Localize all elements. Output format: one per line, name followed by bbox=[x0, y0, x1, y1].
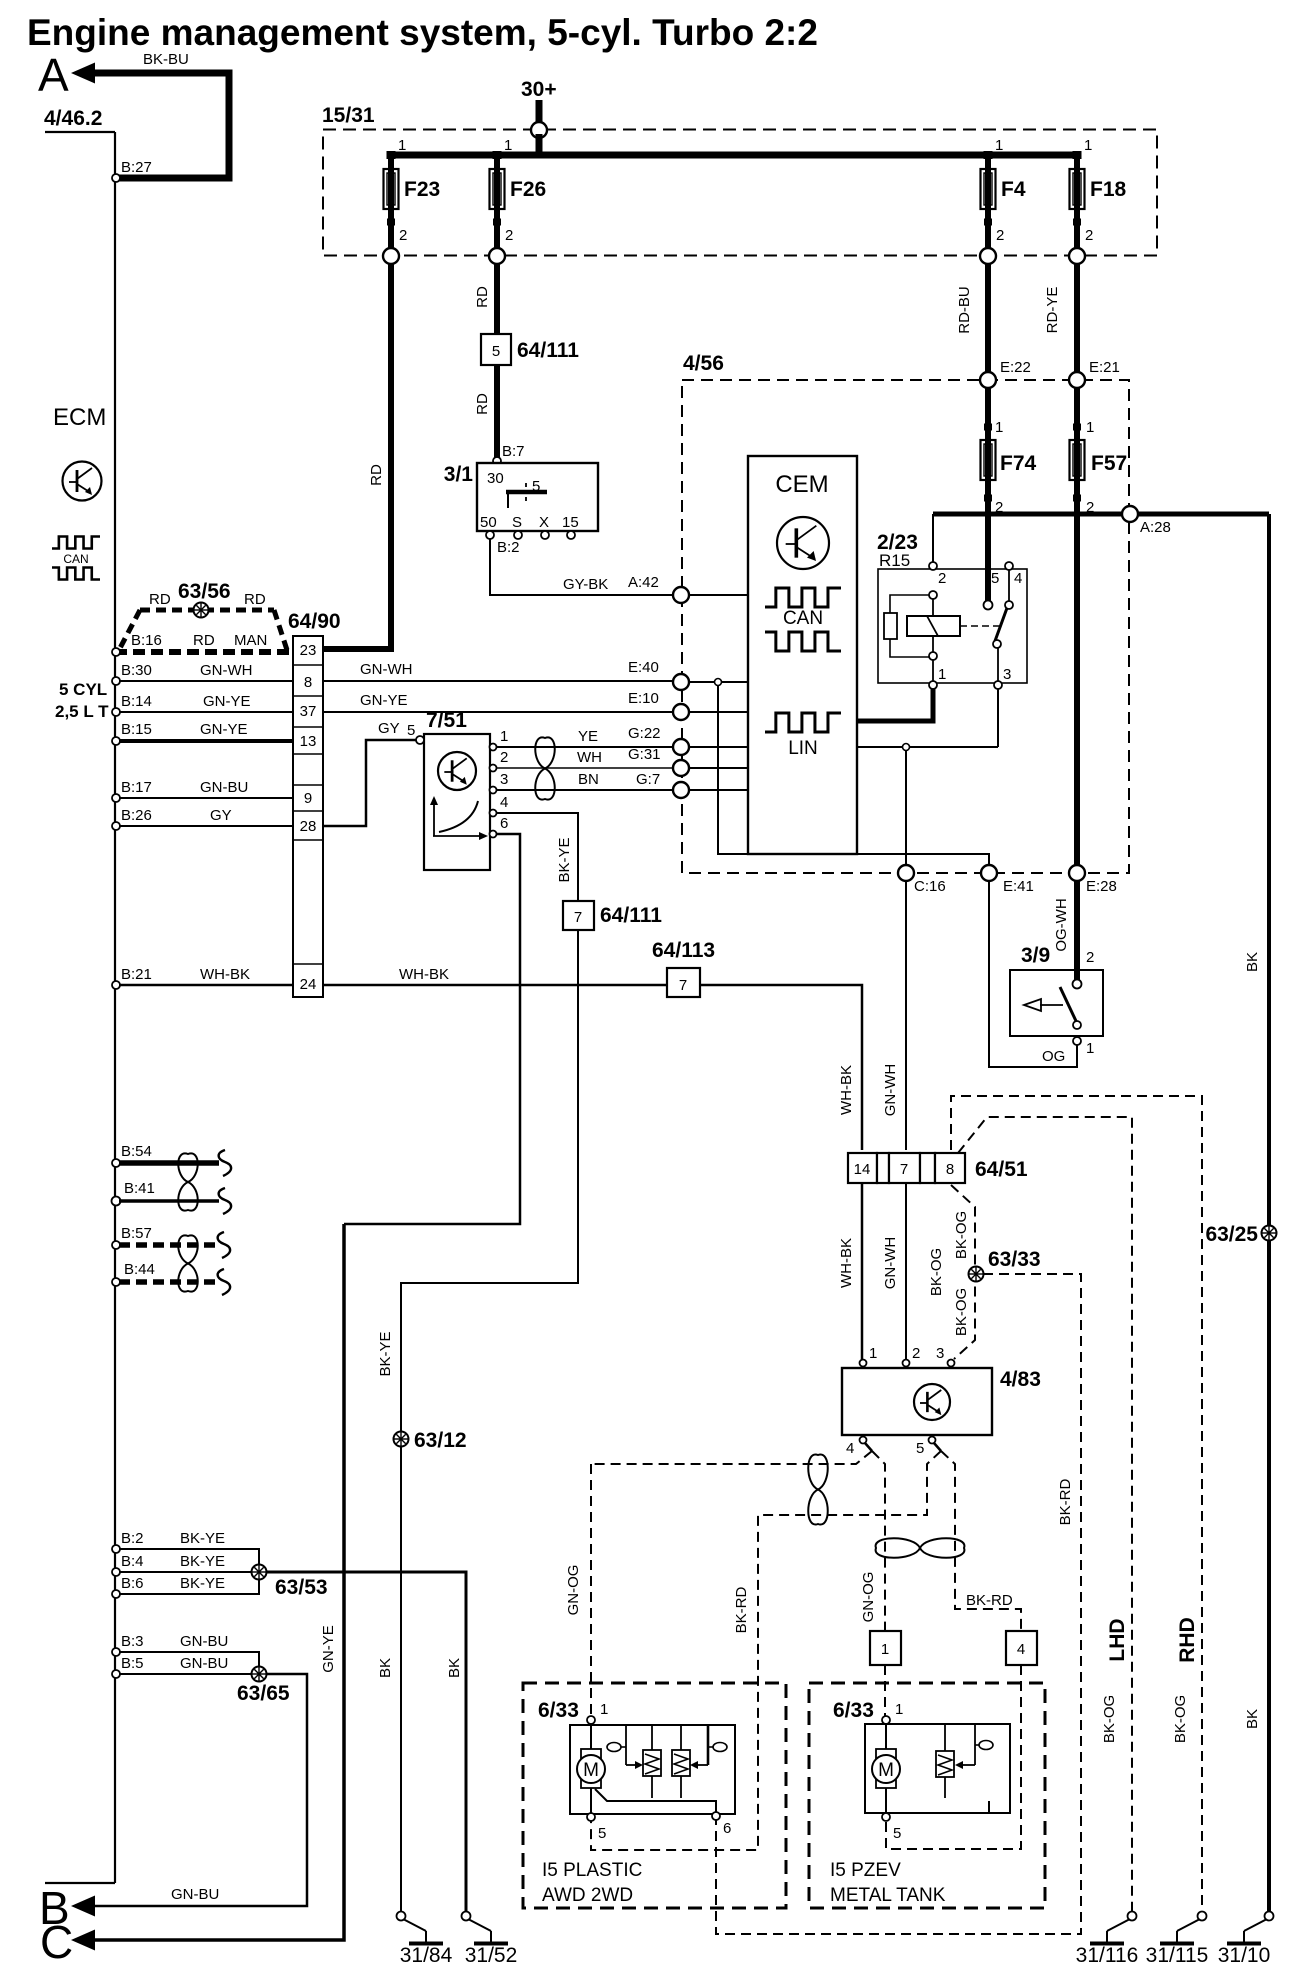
svg-text:RD: RD bbox=[474, 393, 491, 415]
fuse F18 bbox=[1070, 167, 1127, 211]
svg-text:E:21: E:21 bbox=[1089, 359, 1120, 376]
wire B:44 (dashed thick) bbox=[119, 1279, 217, 1285]
svg-text:BK: BK bbox=[1244, 1709, 1261, 1729]
6/33 left pilot line with arrow bbox=[607, 1725, 643, 1769]
svg-text:31/10: 31/10 bbox=[1218, 1944, 1271, 1967]
svg-text:G:22: G:22 bbox=[628, 725, 661, 742]
pin 1 of fuse at x=391 bbox=[387, 151, 396, 159]
fuse F26 bbox=[490, 167, 547, 211]
svg-text:37: 37 bbox=[300, 703, 317, 720]
node 30+ on box edge bbox=[531, 122, 547, 138]
wire B:41 bbox=[119, 1199, 219, 1202]
svg-text:5: 5 bbox=[893, 1825, 901, 1842]
svg-text:G:31: G:31 bbox=[628, 746, 661, 763]
6/33 wire motor to pin 6 bbox=[595, 1789, 716, 1812]
wire F4 column / RD-BU bbox=[985, 152, 991, 601]
svg-text:M: M bbox=[583, 1760, 599, 1781]
svg-text:5: 5 bbox=[532, 478, 540, 495]
pin X of 3/1 bbox=[541, 531, 549, 539]
ground 31/52 bbox=[462, 1912, 518, 1968]
svg-text:CEM: CEM bbox=[775, 471, 828, 498]
3/9 pin 1 terminal bbox=[1073, 1037, 1081, 1045]
svg-text:6: 6 bbox=[500, 815, 508, 832]
CEM control unit symbol bbox=[777, 517, 829, 569]
svg-text:2: 2 bbox=[995, 499, 1003, 516]
svg-text:B:17: B:17 bbox=[121, 779, 152, 796]
svg-text:RD-BU: RD-BU bbox=[956, 286, 973, 334]
wire WH-BK 64/51 pin 14 to 4/83 pin 1 bbox=[861, 1183, 864, 1360]
svg-text:B:41: B:41 bbox=[124, 1180, 155, 1197]
svg-text:1: 1 bbox=[398, 137, 406, 154]
svg-text:BK-OG: BK-OG bbox=[953, 1288, 970, 1336]
svg-text:1: 1 bbox=[500, 728, 508, 745]
pin 1 of F74 bbox=[984, 424, 992, 431]
7/51 pin 4 bbox=[490, 810, 497, 817]
box 4/56 (dashed) bbox=[682, 380, 1129, 873]
svg-text:4: 4 bbox=[500, 794, 508, 811]
svg-text:1: 1 bbox=[1084, 137, 1092, 154]
svg-text:F74: F74 bbox=[1000, 452, 1037, 475]
fuse F57 bbox=[1070, 438, 1128, 482]
pin 1 of F57 bbox=[1073, 424, 1081, 431]
svg-text:63/33: 63/33 bbox=[988, 1248, 1041, 1271]
svg-text:30: 30 bbox=[487, 470, 504, 487]
svg-text:ECM: ECM bbox=[53, 404, 106, 431]
relay 2/23 R15 bbox=[877, 531, 1027, 683]
ground 31/10 bbox=[1218, 1912, 1274, 1968]
svg-text:GY: GY bbox=[210, 807, 232, 824]
wire WH-BK B:21 to pin 24 bbox=[119, 984, 293, 987]
connector pin 1 box bbox=[870, 1631, 901, 1665]
svg-text:GN-YE: GN-YE bbox=[203, 693, 251, 710]
fuse F23 bbox=[384, 167, 441, 211]
svg-text:1: 1 bbox=[938, 666, 946, 683]
wire BK from 63/53 to ground 31/52 bbox=[266, 1572, 466, 1912]
relay pin 1 terminal bbox=[929, 681, 937, 689]
svg-text:AWD 2WD: AWD 2WD bbox=[542, 1885, 633, 1906]
svg-text:BK: BK bbox=[1244, 952, 1261, 972]
pin B:17 bbox=[112, 794, 120, 802]
wire BK-OG RHD variant (dashed) bbox=[951, 1096, 1202, 1912]
svg-text:1: 1 bbox=[995, 137, 1003, 154]
4/83 pin 5 lead bbox=[934, 1443, 941, 1451]
wire B:16 RD/MAN (dashed) bbox=[115, 649, 293, 655]
4/83 pin 4 lead bbox=[865, 1443, 872, 1451]
svg-text:WH: WH bbox=[577, 749, 602, 766]
wire LIN drop to C:16 bbox=[905, 750, 907, 866]
twisted pair symbol (GN-OG/BK-RD left) bbox=[808, 1454, 828, 1524]
wire BK-YE B:2 bbox=[119, 1549, 259, 1566]
CEM CAN symbol bbox=[765, 588, 841, 651]
ground 31/116 bbox=[1076, 1912, 1139, 1968]
svg-text:23: 23 bbox=[300, 642, 317, 659]
svg-text:BK-YE: BK-YE bbox=[180, 1530, 225, 1547]
svg-text:24: 24 bbox=[300, 976, 317, 993]
svg-text:WH-BK: WH-BK bbox=[838, 1238, 855, 1288]
svg-text:F4: F4 bbox=[1001, 178, 1026, 201]
wire BK-YE B:6 bbox=[119, 1578, 259, 1594]
svg-text:4/56: 4/56 bbox=[683, 352, 724, 375]
svg-text:BK-YE: BK-YE bbox=[556, 837, 573, 882]
svg-text:B:54: B:54 bbox=[121, 1143, 152, 1160]
connector 64/51 bbox=[848, 1153, 1028, 1183]
pin 2 of fuse at x=988 bbox=[984, 219, 992, 226]
svg-text:E:22: E:22 bbox=[1000, 359, 1031, 376]
svg-text:1: 1 bbox=[881, 1641, 889, 1658]
pin 2 of fuse at x=1077 bbox=[1073, 219, 1081, 226]
node E:41 bbox=[981, 865, 997, 881]
svg-text:15: 15 bbox=[562, 514, 579, 531]
svg-text:Engine management system, 5-cy: Engine management system, 5-cyl. Turbo 2… bbox=[27, 12, 818, 53]
svg-text:B:27: B:27 bbox=[121, 159, 152, 176]
4/83 pin 2 bbox=[903, 1360, 910, 1367]
pin B:14 bbox=[112, 708, 120, 716]
wire F18 column / RD-YE bbox=[1074, 152, 1080, 980]
fuse F4 bbox=[981, 167, 1026, 211]
svg-text:LHD: LHD bbox=[1106, 1618, 1129, 1661]
svg-text:GN-YE: GN-YE bbox=[320, 1625, 337, 1673]
fuel pump control module 4/83 bbox=[842, 1368, 1041, 1435]
svg-text:5: 5 bbox=[916, 1440, 924, 1457]
wire GN-YE 7/51 pin 6 to arrow C bbox=[344, 834, 520, 1224]
node under F23 bbox=[383, 248, 399, 264]
svg-text:GN-BU: GN-BU bbox=[180, 1633, 228, 1650]
wire E:40 row into CEM bbox=[689, 681, 748, 683]
ground 31/115 bbox=[1146, 1912, 1209, 1968]
svg-text:3/1: 3/1 bbox=[444, 463, 474, 486]
6/33 pin 5 bbox=[587, 1813, 595, 1821]
relay switch blade bbox=[995, 608, 1007, 641]
svg-text:BK-RD: BK-RD bbox=[1057, 1478, 1074, 1525]
pin 2 of F74 bbox=[984, 495, 992, 502]
svg-text:B:15: B:15 bbox=[121, 721, 152, 738]
pin B:4 bbox=[112, 1568, 120, 1576]
svg-text:1: 1 bbox=[600, 1701, 608, 1718]
svg-text:5: 5 bbox=[991, 570, 999, 587]
wire YE 7/51 pin 1 to G:22 bbox=[497, 746, 673, 748]
svg-text:5 CYL: 5 CYL bbox=[59, 680, 107, 699]
svg-text:RHD: RHD bbox=[1176, 1617, 1199, 1663]
svg-text:63/56: 63/56 bbox=[178, 580, 231, 603]
svg-text:OG-WH: OG-WH bbox=[1053, 898, 1070, 951]
splice 63/25 bbox=[1262, 1226, 1277, 1241]
svg-text:WH-BK: WH-BK bbox=[200, 966, 250, 983]
wire BK-YE 7/51 pin 4 via 64/111 to 63/12 bbox=[497, 813, 578, 901]
svg-text:RD: RD bbox=[474, 286, 491, 308]
svg-text:GY-BK: GY-BK bbox=[563, 576, 608, 593]
wire GN-BU B:5 bbox=[119, 1673, 252, 1675]
wire GN-YE pin 37 to E:10 bbox=[323, 711, 673, 713]
svg-text:BK: BK bbox=[377, 1658, 394, 1678]
fuse box 15/31 (dashed) bbox=[323, 130, 1157, 256]
node E:21 bbox=[1069, 372, 1085, 388]
svg-text:F23: F23 bbox=[404, 178, 440, 201]
svg-text:2: 2 bbox=[938, 570, 946, 587]
wire A:42 into CEM bbox=[689, 594, 748, 596]
node under F4 bbox=[980, 248, 996, 264]
svg-text:CAN: CAN bbox=[63, 552, 88, 566]
svg-text:B:2: B:2 bbox=[497, 539, 520, 556]
relay pin 2 terminal bbox=[929, 562, 937, 570]
svg-text:BK-OG: BK-OG bbox=[928, 1248, 945, 1296]
svg-text:13: 13 bbox=[300, 733, 317, 750]
svg-text:14: 14 bbox=[854, 1161, 871, 1178]
svg-text:50: 50 bbox=[480, 514, 497, 531]
wire GN-WH B:30 to pin 8 bbox=[119, 680, 293, 682]
7/51 pedal curve symbol bbox=[430, 796, 488, 840]
svg-text:F18: F18 bbox=[1090, 178, 1127, 201]
svg-text:63/53: 63/53 bbox=[275, 1576, 328, 1599]
svg-text:B:3: B:3 bbox=[121, 1633, 144, 1650]
svg-text:BK-OG: BK-OG bbox=[953, 1211, 970, 1259]
6/33 valve 2 bbox=[672, 1725, 690, 1798]
6/33 pin 1 bbox=[587, 1716, 595, 1724]
svg-text:28: 28 bbox=[300, 818, 317, 835]
svg-text:B:44: B:44 bbox=[124, 1261, 155, 1278]
CEM control module bbox=[748, 456, 857, 854]
svg-text:I5 PLASTIC: I5 PLASTIC bbox=[542, 1860, 642, 1881]
fuel filler switch 3/9 bbox=[1010, 944, 1103, 1036]
svg-text:5: 5 bbox=[492, 343, 500, 360]
svg-text:1: 1 bbox=[895, 1701, 903, 1718]
wire BK-RD 4/83 pin 5 to 6/33 pin 5 (dashed) bbox=[591, 1451, 941, 1850]
svg-text:2: 2 bbox=[996, 227, 1004, 244]
CEM LIN symbol bbox=[765, 713, 841, 759]
wire GY B:26 to pin 28 bbox=[119, 825, 293, 827]
svg-text:1: 1 bbox=[869, 1345, 877, 1362]
wire BK-OG 64/51 pin 8 to 63/33 (dashed) bbox=[951, 1185, 975, 1359]
svg-text:GN-WH: GN-WH bbox=[882, 1237, 899, 1290]
svg-text:7/51: 7/51 bbox=[426, 709, 467, 732]
svg-text:BK-OG: BK-OG bbox=[1172, 1695, 1189, 1743]
pin B:57 bbox=[112, 1241, 120, 1249]
wire BK-OG LHD variant (dashed) bbox=[958, 1117, 1132, 1912]
svg-text:E:41: E:41 bbox=[1003, 878, 1034, 895]
node G:31 bbox=[673, 760, 689, 776]
svg-text:2: 2 bbox=[1085, 227, 1093, 244]
svg-text:4: 4 bbox=[1014, 570, 1022, 587]
pin 50 of 3/1 bbox=[486, 531, 494, 539]
svg-text:BK-RD: BK-RD bbox=[733, 1586, 750, 1633]
fuse F74 bbox=[981, 438, 1037, 482]
splice 63/65 bbox=[252, 1667, 267, 1682]
svg-text:GN-BU: GN-BU bbox=[180, 1655, 228, 1672]
svg-text:F26: F26 bbox=[510, 178, 546, 201]
pin B:16 bbox=[112, 648, 120, 656]
ignition switch 3/1 bbox=[444, 463, 598, 531]
svg-text:RD: RD bbox=[368, 464, 385, 486]
node under F26 bbox=[489, 248, 505, 264]
svg-text:CAN: CAN bbox=[783, 608, 823, 629]
svg-text:1: 1 bbox=[1086, 419, 1094, 436]
svg-text:6/33: 6/33 bbox=[833, 1699, 874, 1722]
svg-text:8: 8 bbox=[946, 1161, 954, 1178]
PZEV motor M bbox=[872, 1723, 900, 1813]
svg-text:2,5 L T: 2,5 L T bbox=[55, 702, 109, 721]
4/83 pin 4 bbox=[860, 1437, 867, 1444]
pin 2 of fuse at x=391 bbox=[387, 219, 395, 226]
wire BK-RD 4/83 pin 5 to PZEV pin 5 (dashed) bbox=[941, 1451, 1021, 1631]
node C:16 bbox=[898, 865, 914, 881]
wire GN-WH branch from E:40 to E:41 bbox=[718, 682, 989, 866]
svg-text:3: 3 bbox=[1003, 666, 1011, 683]
svg-text:GY: GY bbox=[378, 720, 400, 737]
svg-text:B:6: B:6 bbox=[121, 1575, 144, 1592]
7/51 control symbol bbox=[438, 752, 476, 790]
svg-text:4: 4 bbox=[846, 1440, 854, 1457]
twisted pair B:57/B:44 bbox=[178, 1235, 198, 1291]
bus wire 30+ bbox=[536, 134, 543, 155]
wire GY-BK from 3/1 pin 50 to A:42 bbox=[490, 539, 673, 595]
wire F26 column / RD bbox=[494, 152, 500, 458]
7/51 pin 1 bbox=[490, 744, 497, 751]
PZEV pin 1 bbox=[882, 1716, 890, 1724]
wire G:31 row into CEM bbox=[689, 767, 748, 769]
6/33 pin 6 bbox=[712, 1812, 720, 1820]
wire WH 7/51 pin 2 to G:31 bbox=[497, 767, 673, 769]
svg-text:GN-WH: GN-WH bbox=[360, 661, 413, 678]
svg-text:64/111: 64/111 bbox=[517, 339, 579, 362]
svg-text:64/51: 64/51 bbox=[975, 1158, 1028, 1181]
svg-text:RD-YE: RD-YE bbox=[1044, 287, 1061, 334]
6/33 right pilot line with arrow bbox=[690, 1725, 727, 1769]
svg-text:31/115: 31/115 bbox=[1146, 1944, 1209, 1967]
svg-text:2: 2 bbox=[1086, 499, 1094, 516]
relay pin 3 terminal bbox=[994, 681, 1002, 689]
wire G:7 row into CEM bbox=[689, 789, 748, 791]
svg-text:E:28: E:28 bbox=[1086, 878, 1117, 895]
svg-text:B:2: B:2 bbox=[121, 1530, 144, 1547]
svg-text:GN-OG: GN-OG bbox=[565, 1565, 582, 1616]
3/9 actuator arrow bbox=[1024, 999, 1063, 1011]
svg-text:BK: BK bbox=[446, 1658, 463, 1678]
wire BK-YE B:4 bbox=[119, 1571, 252, 1573]
pin B:15 bbox=[112, 737, 120, 745]
svg-text:63/25: 63/25 bbox=[1205, 1223, 1258, 1246]
svg-text:A: A bbox=[38, 49, 69, 101]
svg-text:M: M bbox=[878, 1760, 894, 1781]
svg-text:GN-WH: GN-WH bbox=[200, 662, 253, 679]
pin B:41 bbox=[112, 1197, 121, 1206]
pin S of 3/1 bbox=[514, 531, 522, 539]
PZEV inner box bbox=[865, 1724, 1010, 1813]
svg-text:31/84: 31/84 bbox=[400, 1944, 453, 1967]
svg-text:7: 7 bbox=[574, 909, 582, 926]
relay actuation dashes bbox=[960, 625, 1001, 627]
svg-text:GN-BU: GN-BU bbox=[200, 779, 248, 796]
svg-text:C:16: C:16 bbox=[914, 878, 946, 895]
svg-text:2: 2 bbox=[912, 1345, 920, 1362]
connector 64/111 pin 5 bbox=[481, 334, 579, 365]
svg-text:15/31: 15/31 bbox=[322, 104, 375, 127]
pin B:3 bbox=[112, 1648, 120, 1656]
PZEV pin 5 bbox=[882, 1813, 890, 1821]
svg-text:7: 7 bbox=[679, 977, 687, 994]
fuel pump unit 6/33 (I5 plastic) bbox=[523, 1683, 786, 1908]
connector pin 4 box bbox=[1006, 1631, 1037, 1665]
wire GN-YE B:14 to pin 37 bbox=[119, 711, 293, 713]
relay parallel resistor bbox=[884, 595, 929, 657]
twisted pair symbol 7/51 wires bbox=[535, 737, 555, 799]
svg-text:E:40: E:40 bbox=[628, 659, 659, 676]
wire GN-BU B:17 to pin 9 bbox=[119, 797, 293, 799]
svg-text:R15: R15 bbox=[879, 551, 910, 570]
wire GN-WH C:16 to 64/51 pin 7 bbox=[905, 881, 907, 1150]
pin 1 of fuse at x=988 bbox=[984, 151, 993, 159]
svg-text:X: X bbox=[539, 514, 549, 531]
pin B:5 bbox=[112, 1670, 120, 1678]
svg-text:RD: RD bbox=[193, 632, 215, 649]
node E:10 bbox=[673, 704, 689, 720]
splice 63/53 bbox=[252, 1565, 267, 1580]
svg-text:GN-YE: GN-YE bbox=[360, 692, 408, 709]
svg-text:4/46.2: 4/46.2 bbox=[44, 107, 102, 130]
svg-text:4: 4 bbox=[1017, 1641, 1025, 1658]
svg-text:2: 2 bbox=[1086, 949, 1094, 966]
node E:40 bbox=[673, 674, 689, 690]
wire GN-YE B:15 to pin 13 bbox=[119, 739, 293, 743]
wire A:28 line bbox=[933, 512, 1269, 517]
node E:28 bbox=[1069, 865, 1085, 881]
node E:22 bbox=[980, 372, 996, 388]
svg-text:30+: 30+ bbox=[521, 78, 557, 101]
svg-text:4/83: 4/83 bbox=[1000, 1368, 1041, 1391]
svg-text:64/111: 64/111 bbox=[600, 904, 662, 927]
svg-text:31/116: 31/116 bbox=[1076, 1944, 1139, 1967]
wire BK-RD 63/33 to 6/33 pin 6 (dashed) bbox=[716, 1274, 1081, 1934]
connector 64/111 pin 7 bbox=[563, 901, 662, 930]
svg-text:BK-RD: BK-RD bbox=[966, 1592, 1013, 1609]
break symbol B:57 bbox=[218, 1232, 231, 1258]
svg-text:B:57: B:57 bbox=[121, 1225, 152, 1242]
connector 64/90 bbox=[288, 610, 341, 997]
wire GN-BU from 63/65 to arrow B bbox=[95, 1674, 307, 1906]
svg-text:31/52: 31/52 bbox=[465, 1944, 518, 1967]
svg-text:8: 8 bbox=[304, 674, 312, 691]
wire GN-WH 64/51 pin 7 to 4/83 pin 2 bbox=[905, 1183, 907, 1360]
svg-text:64/113: 64/113 bbox=[652, 939, 715, 962]
connector arrow B bbox=[71, 1896, 95, 1917]
node G:7 bbox=[673, 782, 689, 798]
twisted pair B:54/B:41 bbox=[178, 1153, 198, 1210]
7/51 pin 6 bbox=[490, 831, 497, 838]
svg-text:B:21: B:21 bbox=[121, 966, 152, 983]
connector arrow A bbox=[71, 63, 229, 179]
connector arrow C bbox=[71, 1930, 95, 1951]
svg-text:GN-OG: GN-OG bbox=[860, 1572, 877, 1623]
splice 63/33 bbox=[969, 1267, 984, 1282]
svg-text:5: 5 bbox=[407, 722, 415, 739]
break symbol B:41 bbox=[219, 1188, 232, 1214]
svg-text:1: 1 bbox=[504, 137, 512, 154]
wire GN-OG 4/83 pin 4 to 6/33 pin 1 (dashed) bbox=[591, 1451, 872, 1464]
svg-text:I5 PZEV: I5 PZEV bbox=[830, 1860, 901, 1881]
node G:22 bbox=[673, 739, 689, 755]
svg-text:METAL TANK: METAL TANK bbox=[830, 1885, 946, 1906]
svg-text:F57: F57 bbox=[1091, 452, 1127, 475]
6/33 motor M bbox=[577, 1724, 605, 1813]
svg-text:LIN: LIN bbox=[788, 738, 818, 759]
pin B:54 bbox=[112, 1159, 120, 1167]
svg-text:B:26: B:26 bbox=[121, 807, 152, 824]
7/51 pin 2 bbox=[490, 765, 497, 772]
4/83 control unit symbol bbox=[914, 1384, 950, 1420]
3/9 switch blade bbox=[1060, 987, 1076, 1021]
wire WH-BK pin 24 to 64/51 pin 14 bbox=[323, 985, 862, 1150]
pin B:7 bbox=[493, 457, 501, 465]
svg-text:2: 2 bbox=[500, 749, 508, 766]
pin B:2 bbox=[112, 1545, 120, 1553]
